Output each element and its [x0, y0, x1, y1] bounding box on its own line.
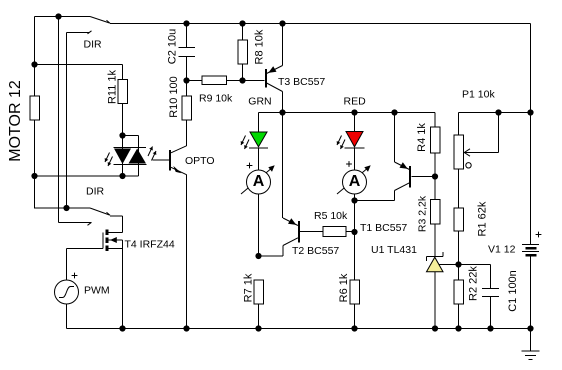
svg-text:R2 22k: R2 22k	[467, 266, 479, 301]
svg-text:R1 62k: R1 62k	[476, 201, 488, 236]
svg-text:R7 1k: R7 1k	[242, 273, 254, 302]
svg-text:PWM: PWM	[84, 285, 110, 297]
svg-text:R5 10k: R5 10k	[314, 210, 348, 222]
svg-text:A: A	[349, 173, 361, 190]
svg-text:R10 100: R10 100	[168, 76, 180, 118]
svg-text:C1 100n: C1 100n	[507, 270, 519, 312]
svg-text:A: A	[253, 173, 265, 190]
svg-text:T2 BC557: T2 BC557	[292, 245, 339, 257]
svg-text:DIR: DIR	[86, 186, 105, 198]
svg-text:V1 12: V1 12	[488, 244, 516, 256]
svg-text:MOTOR 12: MOTOR 12	[7, 80, 24, 162]
svg-text:T3 BC557: T3 BC557	[278, 76, 325, 88]
svg-text:C2 10u: C2 10u	[166, 29, 178, 64]
svg-text:P1 10k: P1 10k	[462, 89, 495, 101]
svg-text:T1 BC557: T1 BC557	[360, 222, 407, 234]
svg-text:GRN: GRN	[248, 96, 271, 108]
svg-text:T4 IRFZ44: T4 IRFZ44	[125, 239, 175, 251]
svg-text:OPTO: OPTO	[185, 155, 215, 167]
svg-text:R8 10k: R8 10k	[253, 29, 265, 64]
svg-text:R9 10k: R9 10k	[199, 93, 233, 105]
svg-text:U1 TL431: U1 TL431	[371, 244, 417, 256]
svg-text:R4 1k: R4 1k	[416, 123, 428, 152]
svg-text:R6 1k: R6 1k	[338, 273, 350, 302]
svg-text:R3 2,2k: R3 2,2k	[416, 195, 428, 232]
svg-text:RED: RED	[344, 96, 367, 108]
svg-text:DIR: DIR	[84, 38, 103, 50]
svg-text:R11 1k: R11 1k	[106, 69, 118, 104]
